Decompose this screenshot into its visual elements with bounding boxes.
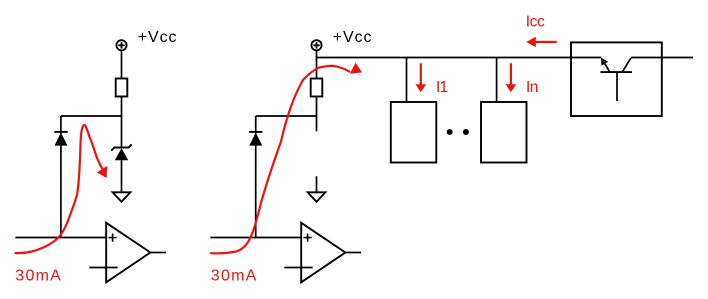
diode D2	[249, 132, 262, 146]
minus input stub U1	[89, 267, 117, 269]
svg-text:+Vcc: +Vcc	[333, 29, 373, 46]
diode D1	[54, 132, 67, 146]
op-amp U2	[301, 223, 345, 282]
wire output (left)	[150, 252, 166, 254]
red arrow In	[506, 63, 517, 92]
Vcc rail (left portion up to transistor emitter)	[317, 57, 602, 59]
transistor Q1 emitter with arrow	[601, 58, 610, 73]
op-amp U1	[106, 223, 150, 282]
wire Vcc to resistor (left)	[121, 50, 123, 78]
wire zener to ground	[121, 160, 123, 192]
wire diode branch vertical (middle)	[255, 116, 257, 238]
wire diode branch vertical (left)	[60, 116, 62, 238]
wire resistor stub (middle, open ended)	[316, 97, 318, 132]
plus sign U2	[304, 234, 312, 242]
Vcc rail (right portion from transistor collector)	[631, 57, 693, 59]
transistor Q1 collector	[622, 58, 631, 72]
zener diode Z1	[111, 144, 131, 160]
svg-text:30mA: 30mA	[15, 268, 62, 285]
power terminal +Vcc (middle circuit)	[311, 40, 321, 50]
wire noninverting input (middle)	[210, 237, 301, 239]
svg-text:30mA: 30mA	[211, 268, 258, 285]
wire output (middle)	[345, 252, 361, 254]
plus sign U1	[109, 234, 117, 242]
load box 1	[391, 102, 437, 163]
floating ground symbol (middle)	[308, 176, 326, 202]
svg-text:In: In	[526, 79, 538, 96]
minus input stub U2	[284, 267, 312, 269]
transistor Q1 base bar	[601, 71, 633, 73]
wire rail to load box 1	[406, 58, 408, 103]
red arrowhead (left)	[97, 166, 107, 178]
power terminal +Vcc (left circuit)	[116, 40, 126, 50]
resistor R2	[311, 79, 323, 97]
red arrow Icc (pointing left)	[526, 37, 557, 48]
wire noninverting input (left)	[15, 237, 106, 239]
ellipsis dot 1	[447, 129, 453, 135]
transistor box Q1	[571, 42, 662, 116]
transistor Q1 base lead	[616, 72, 618, 101]
svg-text:Icc: Icc	[526, 14, 545, 31]
wire branch node to diode branch (left)	[61, 115, 122, 117]
wire Vcc to resistor (middle)	[316, 50, 318, 78]
red arrowhead (middle)	[350, 63, 362, 74]
ellipsis dot 2	[463, 129, 469, 135]
wire resistor to zener	[121, 97, 123, 148]
wire rail to load box n	[496, 58, 498, 103]
resistor R1	[116, 79, 128, 97]
red current curve (middle) up to Vcc rail	[211, 66, 349, 253]
load box n	[481, 102, 527, 163]
red current curve (left) with arrow into zener	[15, 125, 102, 253]
ground (left circuit)	[113, 192, 131, 202]
svg-text:+Vcc: +Vcc	[138, 29, 178, 46]
wire branch node to diode branch (middle)	[256, 115, 317, 117]
svg-text:I1: I1	[436, 79, 448, 96]
red arrow I1	[416, 63, 427, 92]
